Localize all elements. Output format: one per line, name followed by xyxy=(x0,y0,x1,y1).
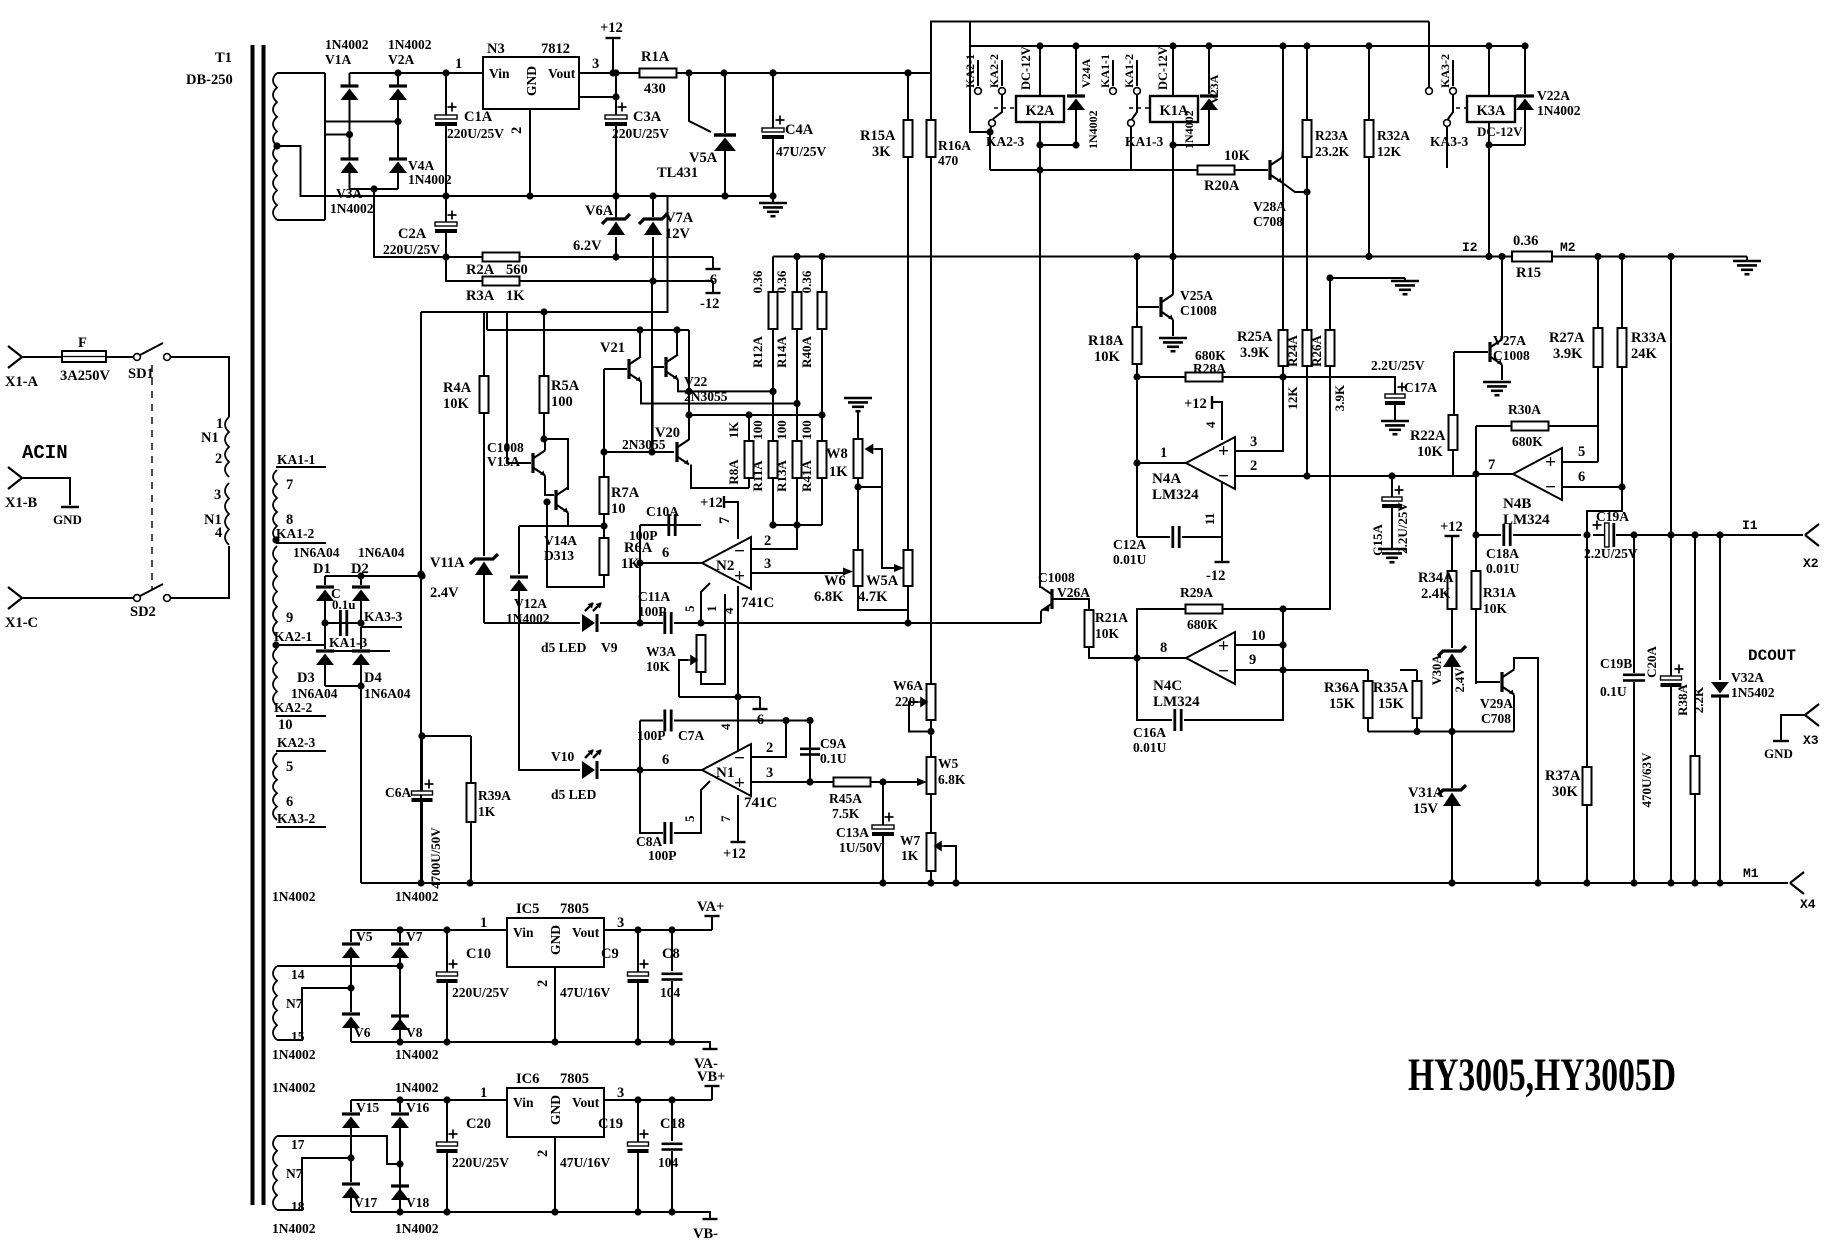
svg-text:7812: 7812 xyxy=(541,41,570,57)
wire KA2-3 frame drop xyxy=(970,22,990,133)
resistor R13A 100 xyxy=(793,441,802,478)
svg-text:SD1: SD1 xyxy=(128,366,154,382)
svg-text:R11A: R11A xyxy=(750,460,765,492)
svg-text:2: 2 xyxy=(764,533,771,549)
svg-text:17: 17 xyxy=(291,1137,305,1152)
diode V5 xyxy=(350,930,352,942)
relay K3A xyxy=(1456,107,1467,109)
svg-text:47U/25V: 47U/25V xyxy=(776,144,827,159)
wire N1 pin4 xyxy=(737,697,739,752)
svg-text:LM324: LM324 xyxy=(1153,694,1200,710)
svg-text:2.2U/25V: 2.2U/25V xyxy=(1395,502,1410,554)
capacitor C7A 100P xyxy=(640,720,663,722)
op-amp N2 741C xyxy=(702,537,751,589)
svg-text:1: 1 xyxy=(480,915,487,931)
resistor R15 0.36 xyxy=(1512,252,1552,262)
svg-text:KA3-2: KA3-2 xyxy=(1438,54,1452,88)
svg-text:R4A: R4A xyxy=(443,380,472,396)
diode V32A 1N5402 xyxy=(1716,531,1723,538)
resistor R40A 0.36 xyxy=(818,253,825,260)
svg-text:W7: W7 xyxy=(900,833,921,848)
svg-text:1N4002: 1N4002 xyxy=(272,1047,316,1062)
svg-text:V11A: V11A xyxy=(430,555,465,571)
wire IC5 bottom row xyxy=(351,1041,701,1043)
switch SD1 xyxy=(106,356,134,358)
wire IC6 GND pin2 xyxy=(554,1137,556,1212)
svg-text:R1A: R1A xyxy=(641,49,670,65)
svg-text:3: 3 xyxy=(764,556,771,572)
svg-text:104: 104 xyxy=(660,985,681,1000)
svg-text:KA3-2: KA3-2 xyxy=(277,811,315,826)
wire IC5 output row xyxy=(604,929,712,931)
svg-text:15V: 15V xyxy=(1413,801,1439,817)
diode V12A 1N4002 xyxy=(519,525,568,527)
svg-text:KA3-3: KA3-3 xyxy=(364,609,402,624)
svg-text:DC-12V: DC-12V xyxy=(1019,46,1033,90)
primary winding N1 xyxy=(225,417,229,477)
svg-text:M1: M1 xyxy=(1743,866,1759,881)
svg-text:1K: 1K xyxy=(726,421,741,439)
wire SD1 to primary xyxy=(170,357,229,417)
capacitor C10 220U/25V xyxy=(446,930,448,972)
svg-text:R25A: R25A xyxy=(1237,329,1273,345)
capacitor C20A 470U/63V xyxy=(1667,531,1674,538)
svg-text:V8: V8 xyxy=(406,1025,423,1040)
capacitor C9 47U/16V xyxy=(637,930,639,972)
svg-text:R27A: R27A xyxy=(1549,330,1585,346)
wire IC5 GND pin2 xyxy=(554,967,556,1042)
svg-text:KA2-2: KA2-2 xyxy=(274,700,312,715)
svg-text:C6A: C6A xyxy=(385,785,411,800)
wire -6 node xyxy=(679,696,760,698)
resistor R1A 430 xyxy=(613,72,640,74)
ground aux rail xyxy=(772,196,774,203)
svg-text:30K: 30K xyxy=(1552,784,1579,800)
svg-text:C15A: C15A xyxy=(1370,524,1385,556)
wire R7A top to V20 base xyxy=(600,448,607,455)
regulator IC5 7805 xyxy=(507,918,604,967)
wire top frame xyxy=(931,22,1429,74)
svg-text:104: 104 xyxy=(658,1155,679,1170)
svg-text:V5: V5 xyxy=(356,929,373,944)
svg-text:0.01U: 0.01U xyxy=(1113,552,1147,567)
winding W3 KA2 xyxy=(273,546,277,637)
svg-text:C1008: C1008 xyxy=(1038,570,1075,585)
svg-text:+: + xyxy=(734,566,745,587)
svg-text:7: 7 xyxy=(718,815,733,822)
svg-text:DB-250: DB-250 xyxy=(186,72,233,88)
terminal -6 xyxy=(759,697,761,708)
capacitor C8A 100P xyxy=(640,770,663,833)
fuse F 3A250V xyxy=(62,351,106,362)
diode V4A xyxy=(389,157,407,160)
potentiometer W5 6.8K xyxy=(927,757,936,794)
terminal -6 aux xyxy=(712,257,714,268)
connector X1-B xyxy=(8,467,22,478)
diode V18 xyxy=(391,1184,409,1187)
resistor R8A 1K xyxy=(745,441,754,478)
wire AC1 to V1A/V3A xyxy=(325,134,350,136)
svg-text:V29A: V29A xyxy=(1480,696,1513,711)
svg-text:C708: C708 xyxy=(1481,711,1511,726)
svg-text:VB+: VB+ xyxy=(697,1069,725,1085)
svg-text:680K: 680K xyxy=(1512,434,1543,449)
svg-text:2: 2 xyxy=(766,740,773,756)
wire IC5 input row xyxy=(351,929,507,931)
svg-text:7.5K: 7.5K xyxy=(832,806,860,821)
svg-text:KA1-2: KA1-2 xyxy=(276,526,314,541)
svg-text:R33A: R33A xyxy=(1631,330,1667,346)
resistor R30A 680K xyxy=(1476,425,1512,427)
svg-text:GND: GND xyxy=(524,66,539,96)
svg-text:R23A: R23A xyxy=(1315,128,1348,143)
svg-text:24K: 24K xyxy=(1631,346,1658,362)
wire pin4 node to C7A row xyxy=(782,717,789,724)
svg-text:V6A: V6A xyxy=(585,203,614,219)
svg-text:100: 100 xyxy=(750,420,765,440)
svg-text:2.2K: 2.2K xyxy=(1691,686,1706,713)
svg-text:741C: 741C xyxy=(741,595,774,611)
svg-text:1U/50V: 1U/50V xyxy=(839,840,883,855)
transistor V14A D313 xyxy=(554,490,557,510)
svg-text:KA2-2: KA2-2 xyxy=(987,54,1001,88)
transformer core xyxy=(251,45,255,1205)
transistor V27A C1008 xyxy=(1488,342,1491,362)
op-amp N4C LM324 xyxy=(1186,632,1235,684)
svg-text:V25A: V25A xyxy=(1180,288,1213,303)
svg-text:R29A: R29A xyxy=(1180,585,1213,600)
svg-text:R31A: R31A xyxy=(1483,585,1516,600)
wire y623 to W5A chain xyxy=(701,622,908,624)
svg-text:2: 2 xyxy=(509,127,525,134)
resistor R36A 15K xyxy=(1367,670,1369,681)
wire AC2 to V2A/V4A xyxy=(325,121,398,123)
svg-text:4: 4 xyxy=(1203,421,1218,428)
svg-text:4.7K: 4.7K xyxy=(858,589,888,605)
svg-text:1N4002: 1N4002 xyxy=(395,1221,439,1236)
svg-text:1N4002: 1N4002 xyxy=(1086,110,1100,149)
terminal VB- xyxy=(701,1212,710,1218)
svg-text:Vin: Vin xyxy=(513,1095,534,1110)
terminal -12 aux xyxy=(712,281,714,292)
svg-text:SD2: SD2 xyxy=(130,604,156,620)
svg-text:+: + xyxy=(1218,441,1229,462)
svg-text:−: − xyxy=(734,748,745,769)
transistor V29A C708 xyxy=(1500,672,1503,692)
resistor R35A 15K xyxy=(1416,670,1418,681)
svg-text:d5 LED: d5 LED xyxy=(541,640,587,655)
wire AC vertical xyxy=(324,73,326,220)
ground W8 xyxy=(844,397,872,400)
node V14A emitter xyxy=(600,522,607,529)
svg-text:470U/63V: 470U/63V xyxy=(1639,752,1654,808)
svg-text:C4A: C4A xyxy=(785,122,814,138)
svg-text:R30A: R30A xyxy=(1508,402,1541,417)
svg-text:X3: X3 xyxy=(1803,733,1819,748)
relay K1A xyxy=(1129,107,1150,109)
svg-text:2: 2 xyxy=(1250,458,1257,474)
wire N2 pin6 input xyxy=(640,562,702,564)
svg-text:N4C: N4C xyxy=(1153,678,1182,694)
resistor R34A 2.4K xyxy=(1448,571,1457,609)
svg-text:1K: 1K xyxy=(901,848,919,863)
wiper W5A xyxy=(882,487,894,568)
svg-text:R20A: R20A xyxy=(1204,178,1240,194)
svg-text:V13A: V13A xyxy=(487,454,520,469)
svg-text:R40A: R40A xyxy=(799,336,814,368)
svg-text:6: 6 xyxy=(662,752,669,768)
svg-text:7: 7 xyxy=(1488,457,1495,473)
capacitor C19A 2.2U/25V xyxy=(1605,523,1609,547)
resistor R14A 0.36 xyxy=(793,253,800,260)
svg-text:R39A: R39A xyxy=(478,788,511,803)
svg-text:3: 3 xyxy=(214,487,221,503)
svg-text:C1A: C1A xyxy=(464,109,493,125)
svg-text:F: F xyxy=(78,335,87,351)
potentiometer W8 1K xyxy=(854,439,863,478)
svg-text:100: 100 xyxy=(551,394,573,410)
svg-text:KA2-1: KA2-1 xyxy=(963,54,977,88)
capacitor C13A 1U/50V xyxy=(882,782,884,825)
svg-text:HY3005,HY3005D: HY3005,HY3005D xyxy=(1408,1049,1676,1101)
diode D3 xyxy=(316,649,334,652)
svg-text:KA1-1: KA1-1 xyxy=(277,452,315,467)
svg-text:C8: C8 xyxy=(662,946,680,962)
potentiometer W5A 4.7K xyxy=(904,550,913,586)
svg-text:220U/25V: 220U/25V xyxy=(452,985,509,1000)
svg-text:R14A: R14A xyxy=(774,336,789,368)
svg-text:V22: V22 xyxy=(684,374,707,389)
svg-text:V28A: V28A xyxy=(1253,199,1286,214)
svg-text:IC6: IC6 xyxy=(516,1071,539,1087)
svg-text:W5A: W5A xyxy=(866,573,899,589)
svg-text:3: 3 xyxy=(592,56,599,72)
wire N4B pin5 xyxy=(1562,461,1598,463)
node C3A rail xyxy=(612,192,619,199)
wire V7A-bottom run xyxy=(651,281,653,452)
svg-text:2: 2 xyxy=(215,451,222,467)
connector X3 / GND xyxy=(1805,704,1819,715)
winding W-top (bridge supply) xyxy=(273,73,277,146)
wire W8 to W6 xyxy=(857,487,859,550)
svg-text:6.8K: 6.8K xyxy=(938,772,966,787)
svg-text:V14A: V14A xyxy=(544,533,577,548)
wire left frame to bottom rail xyxy=(360,686,362,883)
capacitor C4A 47U/25V xyxy=(769,69,776,76)
svg-text:V23A: V23A xyxy=(1207,74,1221,104)
svg-text:1K: 1K xyxy=(506,288,525,304)
svg-text:V5A: V5A xyxy=(689,150,718,166)
wiper arrow W6 from N2 pin3 xyxy=(750,572,843,574)
svg-text:100P: 100P xyxy=(638,604,667,619)
svg-text:0.36: 0.36 xyxy=(750,270,765,293)
svg-text:15K: 15K xyxy=(1329,696,1356,712)
diode V8 xyxy=(391,1014,409,1017)
diode D4 xyxy=(352,649,370,652)
svg-text:0.1U: 0.1U xyxy=(1600,684,1627,699)
svg-text:3: 3 xyxy=(766,765,773,781)
wire V10 line xyxy=(519,623,580,770)
wire C20A to M2 rail xyxy=(1667,253,1674,260)
svg-text:C10A: C10A xyxy=(646,504,679,519)
svg-text:D4: D4 xyxy=(364,670,382,686)
svg-text:1N4002: 1N4002 xyxy=(395,1080,439,1095)
svg-text:C19B: C19B xyxy=(1600,656,1632,671)
svg-text:1K: 1K xyxy=(478,804,496,819)
svg-text:V27A: V27A xyxy=(1493,333,1526,348)
wire IC6 output row xyxy=(604,1099,712,1101)
svg-text:V20: V20 xyxy=(655,425,680,441)
wire W6/W5A bottoms xyxy=(858,586,908,610)
svg-text:R16A: R16A xyxy=(938,138,971,153)
svg-text:1N4002: 1N4002 xyxy=(395,1047,439,1062)
terminal VB+ xyxy=(711,1087,713,1100)
op-amp N4A LM324 xyxy=(1186,437,1235,489)
svg-text:C16A: C16A xyxy=(1133,725,1166,740)
svg-text:KA1-3: KA1-3 xyxy=(1125,134,1163,149)
svg-text:C7A: C7A xyxy=(678,728,704,743)
resistor R39A 1K xyxy=(470,736,472,783)
transistor V26A C1008 xyxy=(1050,589,1053,609)
wire N4C pin8 xyxy=(1137,657,1186,659)
resistor R4A 10K xyxy=(483,312,485,376)
svg-text:X1-C: X1-C xyxy=(5,615,38,631)
svg-text:+: + xyxy=(1545,452,1556,473)
svg-text:V16: V16 xyxy=(406,1100,429,1115)
svg-text:100P: 100P xyxy=(629,528,658,543)
wire V22E/V20C vertical xyxy=(688,330,690,440)
stub KA3-3 xyxy=(361,626,402,628)
svg-text:1N4002: 1N4002 xyxy=(1182,110,1196,149)
svg-text:V30A: V30A xyxy=(1430,655,1444,686)
svg-text:R38A: R38A xyxy=(1675,684,1690,716)
winding W4 xyxy=(273,648,277,706)
wire N4A pin1 xyxy=(1137,462,1186,464)
svg-text:1: 1 xyxy=(1160,445,1167,461)
capacitor C18 104 xyxy=(671,1100,673,1141)
svg-text:10K: 10K xyxy=(1094,349,1121,365)
svg-text:W6: W6 xyxy=(824,573,846,589)
svg-text:14: 14 xyxy=(291,967,305,982)
resistor R37A 30K xyxy=(1586,535,1588,767)
svg-text:R7A: R7A xyxy=(611,485,640,501)
svg-text:12K: 12K xyxy=(1285,386,1300,410)
svg-text:1N4002: 1N4002 xyxy=(388,37,432,52)
svg-text:15K: 15K xyxy=(1378,696,1405,712)
diode V2A xyxy=(389,84,407,87)
svg-text:1N6A04: 1N6A04 xyxy=(293,545,340,560)
diode V6 xyxy=(350,988,352,1012)
svg-text:C1008: C1008 xyxy=(1493,348,1530,363)
svg-text:+12: +12 xyxy=(1184,396,1207,412)
op-amp N1 741C xyxy=(702,744,751,796)
svg-text:10K: 10K xyxy=(1483,601,1508,616)
svg-text:K2A: K2A xyxy=(1026,103,1056,119)
svg-text:100: 100 xyxy=(774,420,789,440)
svg-text:2.2U/25V: 2.2U/25V xyxy=(1371,358,1425,373)
ground C15A xyxy=(1378,548,1406,551)
svg-text:6.2V: 6.2V xyxy=(573,238,602,254)
ground M2 rail xyxy=(1746,257,1748,261)
svg-text:N7: N7 xyxy=(286,996,303,1011)
svg-text:C708: C708 xyxy=(1253,214,1283,229)
capacitor C15A 2.2U/25V xyxy=(1391,476,1393,497)
wire winding bottom xyxy=(277,219,325,221)
wire C6A node xyxy=(418,732,425,739)
capacitor C18A 0.01U xyxy=(1472,531,1479,538)
capacitor C10A 100P xyxy=(640,524,701,526)
svg-text:VA+: VA+ xyxy=(697,899,724,915)
capacitor C6A 4700U/50V xyxy=(421,736,423,791)
svg-text:V24A: V24A xyxy=(1079,58,1093,88)
svg-text:+: + xyxy=(734,773,745,794)
ground V27A xyxy=(1483,381,1511,384)
svg-text:KA2-1: KA2-1 xyxy=(274,629,312,644)
wire KA3-3 xyxy=(1446,127,1448,168)
svg-text:0.36: 0.36 xyxy=(1513,233,1538,249)
terminal VA- xyxy=(701,1042,710,1048)
svg-text:V26A: V26A xyxy=(1057,585,1090,600)
wire frame to K3A contact xyxy=(1428,22,1430,88)
svg-text:C17A: C17A xyxy=(1404,380,1437,395)
wire N4B pin6 xyxy=(1562,486,1622,488)
diode V1A xyxy=(341,84,359,87)
LED V9 d5 xyxy=(596,614,599,632)
wire GND pin 2 xyxy=(529,109,531,196)
svg-text:220U/25V: 220U/25V xyxy=(452,1155,509,1170)
svg-text:1K: 1K xyxy=(829,464,848,480)
svg-text:C20A: C20A xyxy=(1644,646,1659,678)
wire N1 pin3 output xyxy=(751,781,834,783)
svg-text:470: 470 xyxy=(938,153,959,168)
svg-text:R32A: R32A xyxy=(1377,128,1410,143)
dashed gang link SD1-SD2 xyxy=(151,365,153,590)
svg-text:KA2-3: KA2-3 xyxy=(986,134,1024,149)
svg-text:1N6A04: 1N6A04 xyxy=(358,545,405,560)
svg-text:K3A: K3A xyxy=(1477,103,1507,119)
capacitor C19 47U/16V xyxy=(637,1100,639,1142)
svg-text:R12A: R12A xyxy=(750,336,765,368)
terminal -12 N4A xyxy=(1221,537,1223,561)
node C2A R2A xyxy=(442,253,449,260)
svg-text:X4: X4 xyxy=(1800,897,1816,912)
svg-text:V31A: V31A xyxy=(1408,785,1444,801)
svg-text:R15: R15 xyxy=(1516,265,1541,281)
svg-text:5: 5 xyxy=(1578,444,1585,460)
svg-text:220U/25V: 220U/25V xyxy=(383,242,440,257)
capacitor C20 220U/25V xyxy=(446,1100,448,1142)
svg-text:1N5402: 1N5402 xyxy=(1731,685,1775,700)
resistor R21A 10K xyxy=(1054,599,1090,610)
svg-text:0.36: 0.36 xyxy=(774,270,789,293)
svg-text:-12: -12 xyxy=(700,296,719,312)
svg-text:IC5: IC5 xyxy=(516,901,539,917)
wire emitter row xyxy=(1368,731,1514,733)
wire SD2 to primary bottom xyxy=(170,546,229,598)
diode D1 xyxy=(316,585,334,588)
svg-text:3: 3 xyxy=(1250,434,1257,450)
svg-text:10K: 10K xyxy=(1095,626,1120,641)
capacitor C19B 0.1U xyxy=(1630,531,1637,538)
svg-text:2.4V: 2.4V xyxy=(430,585,459,601)
zener V7A 12V xyxy=(649,192,656,199)
wire N4C pin9 xyxy=(1235,669,1368,671)
svg-text:V22A: V22A xyxy=(1537,88,1570,103)
zener V6A 6.2V xyxy=(602,214,630,224)
svg-text:1: 1 xyxy=(455,56,462,72)
wire center tap to rail xyxy=(277,146,446,196)
svg-text:−: − xyxy=(1218,661,1229,682)
